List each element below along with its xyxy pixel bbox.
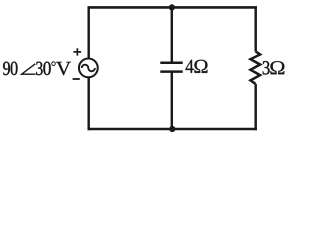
- text glyph lab90 digit 0: [11, 62, 18, 75]
- wire left-top: [87, 6, 89, 58]
- minus sign: [73, 78, 80, 80]
- ac source sine: [82, 65, 95, 72]
- text glyph degree sign: [51, 61, 55, 65]
- wire middle-bottom: [171, 72, 173, 130]
- resistor R zigzag: [251, 51, 261, 84]
- text glyph res label Omega: [270, 61, 284, 74]
- text glyph cap label digit 4: [186, 60, 194, 73]
- text glyph lab30 digit 0: [43, 62, 50, 75]
- node dot bottom: [169, 126, 175, 132]
- text glyph letter V: [56, 62, 71, 75]
- wire left-bottom: [87, 78, 89, 131]
- wire bottom: [88, 128, 257, 131]
- ac source U1 circle: [79, 59, 98, 78]
- text glyph lab30 digit 3: [36, 62, 42, 75]
- wire right-top: [254, 6, 256, 51]
- text glyph res label digit 3: [263, 61, 270, 74]
- text glyph cap label Omega: [194, 60, 207, 73]
- angle symbol: [22, 64, 36, 74]
- plus sign: [74, 48, 82, 55]
- capacitor C plates: [160, 63, 182, 72]
- wire right-bottom: [254, 84, 256, 130]
- wire middle-top: [171, 7, 173, 62]
- wire top: [88, 6, 257, 9]
- node dot top: [169, 4, 175, 10]
- text glyph lab90 digit 9: [3, 62, 10, 75]
